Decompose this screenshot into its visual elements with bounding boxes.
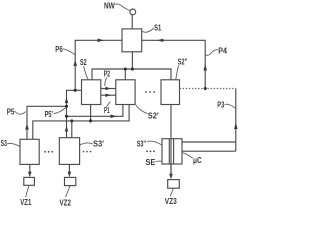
wire S2'' bottom through uC box to VZ3 [170,105,172,175]
leader NW [115,4,130,11]
load VZ1 [24,177,35,185]
wire P3 drop [235,89,237,152]
ellipsis below S3'' label [146,150,148,152]
node B1/S2'-top junction [124,67,127,70]
wire dotted rail [180,88,236,90]
leader S3' [79,143,92,145]
leader S3'' [147,141,162,145]
node dotted-rail/P4 junction [204,87,207,90]
svg-text:NW: NW [104,1,115,10]
leader VZ3 [170,188,173,196]
leader P4 [206,49,218,55]
wire S2 left input [75,89,81,91]
wire top-left line P6 corner to S1 [75,40,122,90]
wire bus B1 over S2 row [92,69,171,80]
wire S3' second input [71,121,73,138]
svg-text:P5': P5' [45,110,53,119]
converter S3'' assembly with SE and uC [162,139,182,164]
wire P2 arrow line [101,88,116,90]
node B1/S1-bottom junction [131,67,134,70]
svg-text:P1: P1 [104,106,110,115]
svg-text:S3: S3 [1,139,8,148]
arrow P1 right [105,94,111,97]
leader P3 [225,104,236,108]
svg-text:S3'': S3'' [137,139,146,148]
load VZ3 [168,180,180,189]
converter S3 [20,139,39,164]
svg-text:P5: P5 [7,107,15,116]
svg-text:VZ2: VZ2 [60,199,72,208]
leader P5 [15,111,26,114]
svg-text:P3: P3 [217,101,224,110]
svg-text:VZ3: VZ3 [165,197,177,206]
wire NW drop to S1 [131,15,133,29]
arrow V2 lower up [65,126,69,132]
svg-text:S1: S1 [154,23,162,32]
converter S3' [59,138,79,165]
arrow VZ2 down [68,172,72,178]
leader SE [156,160,163,163]
wire VZ1 drop [29,164,31,174]
ellipsis right of S3' [83,151,85,153]
svg-text:VZ1: VZ1 [20,198,31,207]
leader P2 [105,78,107,87]
arrow P2 right [105,87,111,90]
svg-text:P2: P2 [104,69,111,78]
converter S2'' [161,80,180,105]
arrow into S1 right [157,39,163,42]
node NW terminal circle [130,9,136,15]
node R2/S3'-input junction [70,119,73,122]
leader VZ2 [66,186,70,197]
leader P5' [54,107,66,113]
ellipsis between S2' and S2'' [145,91,147,93]
leader VZ1 [26,186,29,198]
wire rail R2 from S3 to S2' bottom [33,105,129,140]
arrow P4 up [203,64,207,71]
node R1/V2 junction [65,115,68,118]
wire rail R1 into S2' bottom [67,105,123,117]
svg-text:S2: S2 [80,58,87,67]
load VZ2 [65,177,76,185]
leader P1 [107,102,111,107]
arrow VZ1 down [28,172,32,178]
wire S2 bottom drop [90,105,92,121]
arrow R1 right [110,115,117,119]
arrow P6 up [73,60,77,66]
wire S1 bottom drop [131,52,133,69]
wire VZ3 tail [170,164,172,175]
svg-text:P4: P4 [218,47,227,56]
svg-text:μC: μC [193,156,202,165]
svg-text:P6: P6 [55,45,63,54]
node R2/S2-bottom junction [89,119,92,122]
svg-text:SE: SE [146,158,157,167]
converter S2 [82,80,101,105]
arrow V2 upper up [65,97,69,103]
node V1/S2-input junction [74,89,77,92]
ellipsis between S3 and S3' [44,151,46,153]
wire VZ2 drop [68,164,70,174]
leader S2'' [176,65,179,79]
svg-text:S2'': S2'' [178,58,188,67]
wire P1 arrow line [101,94,116,96]
converter S1 [122,29,142,52]
node R0/V2 junction [65,105,68,108]
leader uC [182,152,193,158]
leader P6 [63,49,75,55]
arrow into S1 left [98,39,105,43]
leader S2' [136,105,148,114]
arrow VZ3 down [169,174,173,180]
wire uC upper link [182,141,236,143]
wire top-right line S1 to P4 drop [142,40,206,88]
converter S2' [116,80,135,105]
arrow P5 up [25,123,29,129]
leader S1 [142,28,154,32]
wire jog down V2 to S3' [67,90,76,137]
arrow P3 up [234,123,238,130]
leader S2 [84,66,89,80]
wire S2' top drop [124,69,126,80]
leader S3 [7,143,20,146]
svg-text:S3': S3' [93,140,104,149]
wire uC lower link [174,150,236,152]
wire rail R0 to P5 drop [27,106,67,139]
svg-text:S2': S2' [148,112,159,121]
